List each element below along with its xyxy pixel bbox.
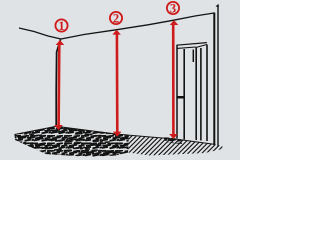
svg-text:3: 3 <box>170 1 176 15</box>
svg-text:2: 2 <box>113 11 119 25</box>
svg-text:1: 1 <box>58 19 64 33</box>
